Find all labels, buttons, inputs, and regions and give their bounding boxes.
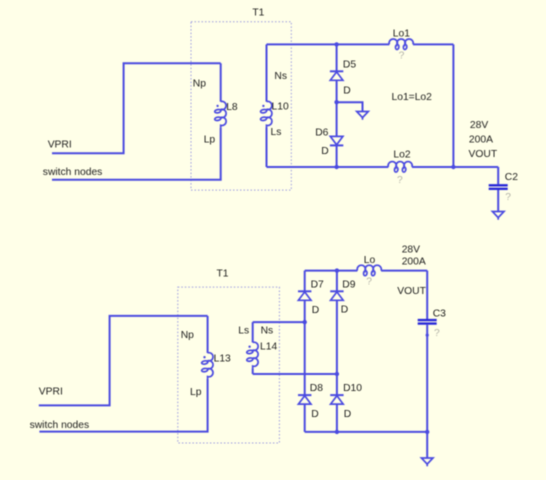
svg-text:D: D xyxy=(311,409,318,420)
inductor Lo1 xyxy=(389,39,413,50)
wire secondary bottom to bridge right leg xyxy=(253,373,337,375)
inductor L8 (primary winding Lp) xyxy=(214,101,226,127)
svg-text:D: D xyxy=(343,86,350,97)
wire secondary winding bottom segment (bottom) xyxy=(252,368,254,374)
wire bottom rail (secondary to Lo2) xyxy=(267,166,389,168)
inductor L10 (secondary winding Ls) xyxy=(260,101,272,127)
inductor L13 (primary winding Lp) xyxy=(201,353,213,379)
wire secondary top to bridge left leg xyxy=(253,321,305,323)
svg-text:VOUT: VOUT xyxy=(469,149,498,160)
svg-text:Ls: Ls xyxy=(238,325,249,336)
wire bridge right leg top segment xyxy=(336,271,338,292)
svg-text:Lo1: Lo1 xyxy=(393,28,410,39)
wire bridge right leg bottom segment xyxy=(336,404,338,432)
inductor L14 (secondary winding Ls) xyxy=(246,342,258,368)
wire bridge left leg middle segment xyxy=(304,300,306,395)
svg-text:L13: L13 xyxy=(214,354,231,365)
ground (under C2) xyxy=(492,212,504,220)
svg-text:Ns: Ns xyxy=(274,71,287,82)
svg-text:Lo: Lo xyxy=(364,255,376,266)
svg-text:C2: C2 xyxy=(505,172,518,183)
svg-text:VPRI: VPRI xyxy=(48,139,72,150)
svg-text:D7: D7 xyxy=(311,280,324,291)
svg-text:C3: C3 xyxy=(433,309,446,320)
capacitor C3 xyxy=(418,320,437,324)
wire C2 bottom stem xyxy=(497,190,499,212)
svg-text:200A: 200A xyxy=(402,257,426,268)
svg-text:?: ? xyxy=(434,328,440,339)
diode D7 xyxy=(298,291,311,300)
wire VPRI (bottom circuit) xyxy=(39,316,208,406)
wire diode leg upper (to D5) xyxy=(336,44,338,71)
junction bottom rail at right leg xyxy=(335,430,339,434)
svg-text:D: D xyxy=(344,409,351,420)
svg-text:Lo1=Lo2: Lo1=Lo2 xyxy=(392,92,433,103)
ground (top circuit center) xyxy=(357,112,369,120)
wire secondary winding bottom segment xyxy=(266,128,268,168)
capacitor C2 xyxy=(489,185,508,189)
wire primary winding top segment (bottom) xyxy=(207,316,209,353)
svg-text:L14: L14 xyxy=(260,342,277,353)
wire VPRI (top circuit) xyxy=(52,63,221,153)
ground (bottom circuit) xyxy=(421,458,433,466)
wire D6 to bottom rail xyxy=(336,145,338,167)
pin dot under C3 xyxy=(426,334,429,337)
wire bridge left leg bottom segment xyxy=(304,404,306,432)
svg-text:28V: 28V xyxy=(470,120,488,131)
svg-text:?: ? xyxy=(505,192,511,203)
svg-text:VOUT: VOUT xyxy=(397,286,426,297)
wire switch nodes (top circuit) xyxy=(52,128,221,180)
svg-text:switch nodes: switch nodes xyxy=(30,420,90,431)
wire switch nodes (bottom circuit) xyxy=(39,379,207,432)
svg-text:D: D xyxy=(321,146,328,157)
wire top rail (Lo1 to right rail) xyxy=(413,43,453,45)
svg-text:D: D xyxy=(341,305,348,316)
svg-text:L10: L10 xyxy=(272,101,289,112)
junction bottom rail at right rail xyxy=(425,430,429,434)
transformer T1 boundary box (top) xyxy=(191,22,291,190)
junction at bottom rail and diode leg xyxy=(334,165,338,169)
svg-text:Lp: Lp xyxy=(204,135,216,146)
svg-text:D10: D10 xyxy=(343,383,362,394)
inductor Lo xyxy=(357,265,381,276)
junction at top rail and diode leg xyxy=(334,42,338,46)
svg-text:D5: D5 xyxy=(343,59,356,70)
svg-text:Lp: Lp xyxy=(190,387,202,398)
svg-text:?: ? xyxy=(397,175,403,186)
wire secondary winding (L10) top segment xyxy=(266,44,268,101)
svg-text:D: D xyxy=(312,305,319,316)
svg-text:D6: D6 xyxy=(315,127,328,138)
junction secondary bottom at right leg xyxy=(335,372,339,376)
junction at right rail and bottom rail xyxy=(451,165,455,169)
diode D5 xyxy=(330,71,343,80)
wire top rail (Lo to right rail) xyxy=(381,270,427,272)
wire right rail bottom (C3 to ground) xyxy=(426,325,428,458)
junction secondary top at left leg xyxy=(303,320,307,324)
svg-text:T1: T1 xyxy=(252,8,264,19)
diode D8 xyxy=(298,395,311,404)
wire bottom rail (Lo2 to C2) xyxy=(412,166,498,168)
svg-text:Ns: Ns xyxy=(261,325,274,336)
wire bottom rail (bridge to right rail) xyxy=(305,431,428,433)
svg-text:switch nodes: switch nodes xyxy=(43,167,103,178)
junction at ground tap xyxy=(334,100,338,104)
svg-text:VPRI: VPRI xyxy=(39,387,63,398)
wire top rail (bridge to Lo) xyxy=(305,270,358,272)
svg-text:D8: D8 xyxy=(310,383,323,394)
wire C2 top stem xyxy=(497,167,499,184)
wire ground tap xyxy=(337,102,363,111)
svg-text:D9: D9 xyxy=(342,280,355,291)
svg-text:Lo2: Lo2 xyxy=(393,150,410,161)
wire bridge left leg top segment xyxy=(304,271,306,292)
wire right rail (top circuit) xyxy=(452,44,454,167)
wire primary winding top segment xyxy=(220,63,222,101)
wire between D5 and D6 xyxy=(336,80,338,136)
diode D9 xyxy=(330,291,343,300)
svg-text:?: ? xyxy=(366,276,372,287)
svg-text:Np: Np xyxy=(193,79,206,90)
wire secondary winding top segment (bottom) xyxy=(252,322,254,342)
svg-text:T1: T1 xyxy=(217,268,229,279)
diode D10 xyxy=(330,395,343,404)
wire top rail (secondary top to Lo1) xyxy=(267,43,390,45)
svg-text:Np: Np xyxy=(181,330,194,341)
junction top rail at right leg xyxy=(335,268,339,272)
wire right rail top (to C3) xyxy=(426,271,428,319)
diode D6 xyxy=(330,136,343,145)
transformer T1 boundary box (bottom) xyxy=(178,287,280,443)
svg-text:28V: 28V xyxy=(402,245,420,256)
inductor Lo2 xyxy=(388,162,412,173)
svg-text:200A: 200A xyxy=(469,135,493,146)
wire bridge right leg middle segment xyxy=(336,300,338,395)
svg-text:?: ? xyxy=(399,51,405,62)
svg-text:L8: L8 xyxy=(226,102,238,113)
svg-text:Ls: Ls xyxy=(271,127,282,138)
